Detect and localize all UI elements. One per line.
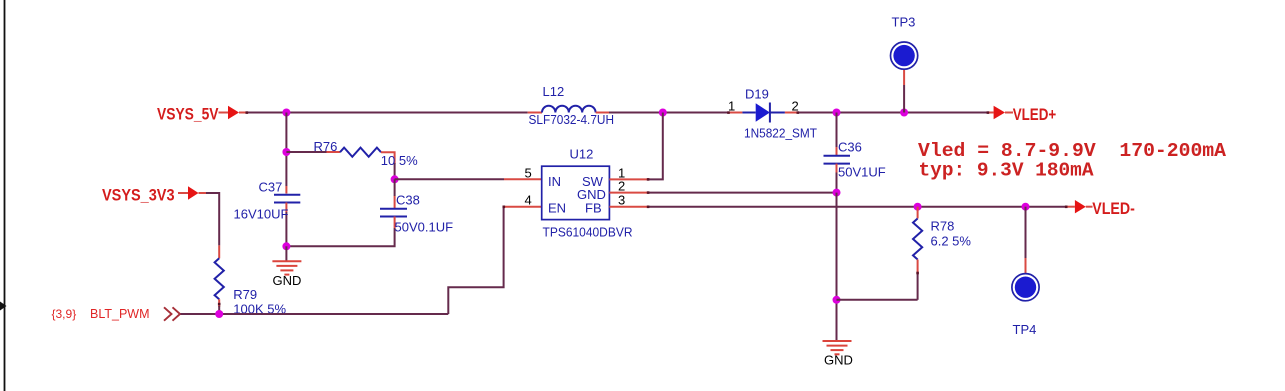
ic U12 body	[542, 166, 610, 219]
wire C38 bottom to GND rail	[286, 228, 394, 246]
inductor L12 right pin stub	[596, 112, 609, 114]
svg-text:R76: R76	[314, 139, 338, 154]
pin name FB	[585, 200, 602, 215]
pin end dot at U12 pin3 wire	[647, 206, 650, 209]
svg-text:U12: U12	[570, 147, 594, 162]
pin end dot at U12 pin4	[503, 206, 506, 209]
pin end dot at R79 bottom	[218, 303, 221, 306]
diode D19 right pin stub	[785, 112, 798, 114]
svg-text:BLT_PWM: BLT_PWM	[90, 306, 150, 321]
diode D19 left pin stub	[728, 112, 742, 114]
junction on top rail at TP3	[900, 109, 908, 117]
value 16V10UF	[234, 207, 289, 222]
sheet border left line	[4, 0, 6, 391]
capacitor C36	[824, 156, 851, 164]
net VSYS_3V3 arrow	[178, 186, 207, 199]
wire BLT_PWM riser to EN	[448, 207, 503, 314]
svg-text:50V0.1UF: 50V0.1UF	[395, 220, 454, 235]
junction FB net at R78	[914, 203, 922, 211]
label U12	[570, 147, 594, 162]
label C38	[396, 193, 420, 208]
svg-text:2: 2	[618, 179, 625, 194]
svg-text:TP3: TP3	[892, 15, 916, 30]
offpage ref {3,9}	[52, 307, 77, 321]
svg-text:1: 1	[728, 99, 735, 114]
wire bottom rail to R78	[837, 299, 918, 301]
junction GND net at C36 riser	[833, 189, 841, 197]
resistor R76	[340, 148, 381, 157]
junction BLT_PWM at R79	[215, 310, 223, 318]
label TP3	[892, 15, 916, 30]
testpoint TP4 wire	[1025, 207, 1027, 274]
label L12	[543, 84, 565, 99]
ground symbol GND2	[823, 341, 852, 354]
annotation Vled line 1	[918, 140, 1226, 162]
svg-text:TP4: TP4	[1013, 322, 1037, 337]
svg-text:4: 4	[525, 193, 532, 208]
value 6.2 5% of R78	[931, 234, 972, 249]
pin 1 stub of U12 (SW)	[609, 178, 648, 180]
pin number 3	[618, 193, 625, 208]
pin end dot before VLED+ arrow	[987, 111, 990, 114]
pin name IN	[548, 174, 561, 189]
svg-text:2: 2	[792, 99, 799, 114]
net VLED+ arrow	[988, 106, 1013, 119]
wire GND net to C36 bottom	[648, 192, 837, 194]
wire VSYS_5V top rail	[246, 112, 528, 114]
net VLED+ label	[1013, 105, 1057, 124]
junction at IN node	[391, 175, 399, 183]
svg-text:GND: GND	[824, 353, 853, 368]
resistor R76 left stub	[327, 151, 341, 153]
wire R76 to IN node	[394, 163, 396, 179]
pin end dot at VSYS_5V wire start	[246, 111, 249, 114]
svg-text:VLED-: VLED-	[1092, 199, 1135, 218]
resistor R76 right stub	[381, 152, 395, 164]
svg-text:C38: C38	[396, 193, 420, 208]
net VLED- label	[1092, 199, 1135, 218]
net VSYS_5V label	[157, 105, 219, 124]
label R78	[931, 219, 955, 234]
wire BLT_PWM horizontal	[181, 313, 449, 315]
resistor R78	[913, 219, 922, 260]
svg-text:VSYS_3V3: VSYS_3V3	[102, 185, 175, 204]
pin number 1	[618, 165, 625, 180]
resistor R76 wire from junction	[286, 151, 326, 153]
pin name SW	[582, 174, 604, 189]
svg-text:VSYS_5V: VSYS_5V	[157, 105, 219, 124]
svg-text:GND: GND	[273, 273, 302, 288]
junction FB net at TP4	[1022, 203, 1030, 211]
pin 2 stub of U12 (GND)	[609, 192, 648, 194]
pin end dot at U12 pin1 wire	[647, 178, 650, 181]
offpage connector chevrons	[164, 307, 180, 320]
wire C36 bottom to GND net	[836, 173, 838, 193]
wire SW to top rail riser	[648, 113, 663, 180]
wire top rail D19 to VLED+	[798, 112, 988, 114]
svg-text:FB: FB	[585, 200, 602, 215]
capacitor C36 top stub	[836, 147, 838, 156]
resistor R79	[215, 258, 224, 299]
wire C37 bottom to GND rail	[285, 212, 287, 246]
pin number 2 of D19	[792, 99, 799, 114]
svg-text:C37: C37	[259, 180, 283, 195]
svg-text:10 5%: 10 5%	[381, 153, 418, 168]
testpoint TP4	[1012, 274, 1039, 301]
capacitor C37 top stub	[285, 186, 287, 194]
diode D19	[742, 103, 785, 123]
pin number 2	[618, 179, 625, 194]
label C36	[838, 140, 862, 155]
pin 5 stub of U12	[504, 178, 542, 180]
svg-text:C36: C36	[838, 140, 862, 155]
pin name GND	[577, 187, 606, 202]
value 1N5822_SMT	[744, 126, 817, 141]
wire C37 branch vertical from top rail	[285, 113, 287, 187]
pin number 4	[525, 193, 532, 208]
junction on top rail at SW riser	[659, 109, 667, 117]
resistor R79 top stub	[218, 245, 220, 258]
junction at R76 branch	[282, 148, 290, 156]
junction GND riser at R78 rail	[833, 296, 841, 304]
svg-text:TPS61040DBVR: TPS61040DBVR	[543, 225, 633, 240]
wire IN node down to C38	[394, 179, 396, 196]
svg-text:R79: R79	[233, 287, 257, 302]
inductor L12 left pin stub	[528, 112, 542, 114]
net VLED- arrow	[1067, 200, 1093, 213]
label C37	[259, 180, 283, 195]
value 100K 5% of R79	[233, 302, 286, 317]
net VSYS_5V arrow	[219, 106, 248, 119]
value 50V1UF	[838, 165, 886, 180]
value SLF7032-4.7UH	[529, 112, 615, 127]
label TP4	[1013, 322, 1037, 337]
svg-text:R78: R78	[931, 219, 955, 234]
svg-text:typ: 9.3V 180mA: typ: 9.3V 180mA	[919, 160, 1094, 182]
label R76	[314, 139, 338, 154]
capacitor C36 bottom stub	[836, 164, 838, 173]
svg-text:L12: L12	[543, 84, 565, 99]
resistor R78 top stub	[917, 207, 919, 219]
pin end dot at R78 bottom	[916, 272, 919, 275]
capacitor C37	[274, 195, 300, 203]
resistor R78 bottom stub	[917, 260, 919, 274]
capacitor C38 top stub	[394, 196, 396, 209]
testpoint TP3 wire	[903, 69, 905, 113]
wire GND riser down	[836, 193, 838, 340]
pin name EN	[548, 200, 566, 215]
svg-text:5: 5	[525, 165, 532, 180]
pin end dot before VLED- arrow	[1065, 206, 1068, 209]
pin number 5	[525, 165, 532, 180]
wire FB net to VLED-	[648, 206, 1067, 208]
svg-text:3: 3	[618, 193, 625, 208]
pin end dot at U12 pin2 wire	[647, 191, 650, 194]
svg-text:VLED+: VLED+	[1013, 105, 1057, 124]
capacitor C37 bottom stub	[285, 203, 287, 213]
svg-text:EN: EN	[548, 200, 566, 215]
label D19	[745, 87, 769, 102]
net VSYS_3V3 label	[102, 185, 175, 204]
pin 3 stub of U12 (FB)	[609, 206, 648, 208]
wire R79 bottom to BLT_PWM net	[218, 306, 220, 314]
pin number 1 of D19	[728, 99, 735, 114]
svg-text:SLF7032-4.7UH: SLF7032-4.7UH	[529, 112, 615, 127]
svg-text:6.2 5%: 6.2 5%	[931, 234, 972, 249]
svg-text:50V1UF: 50V1UF	[838, 165, 886, 180]
junction at GND rail	[282, 242, 290, 250]
annotation typ line 2	[919, 160, 1094, 182]
pin end dot at D19 pin2	[797, 111, 800, 114]
svg-text:{3,9}: {3,9}	[52, 307, 77, 321]
junction on top rail at C36	[833, 109, 841, 117]
svg-text:D19: D19	[745, 87, 769, 102]
value TPS61040DBVR	[543, 225, 633, 240]
label GND1	[273, 273, 302, 288]
value 50V0.1UF	[395, 220, 454, 235]
inductor L12	[542, 106, 596, 113]
svg-text:1N5822_SMT: 1N5822_SMT	[744, 126, 817, 141]
pin 4 stub of U12	[504, 206, 542, 208]
wire IN node to U12 pin5	[395, 178, 504, 180]
label R79	[233, 287, 257, 302]
capacitor C38 bottom stub	[394, 217, 396, 229]
pin end dot at D19 pin1	[727, 111, 730, 114]
resistor R79 bottom stub	[218, 299, 220, 307]
value 10 5% of R76	[381, 153, 418, 168]
wire junction to GND symbol	[285, 246, 287, 260]
wire R78 bottom to rail	[917, 273, 919, 300]
svg-text:IN: IN	[548, 174, 561, 189]
label GND2	[824, 353, 853, 368]
ground symbol GND1	[272, 261, 301, 274]
net label BLT_PWM	[90, 306, 150, 321]
svg-text:16V10UF: 16V10UF	[234, 207, 289, 222]
wire VSYS_3V3 to R79	[206, 193, 219, 245]
capacitor C38	[380, 209, 407, 217]
wire top rail between L12 and D19	[609, 112, 728, 114]
testpoint TP3	[891, 42, 918, 69]
sheet border arrow marker	[0, 302, 7, 311]
capacitor C36 top wire from rail	[836, 113, 838, 148]
junction on top rail at C37 branch	[282, 109, 290, 117]
